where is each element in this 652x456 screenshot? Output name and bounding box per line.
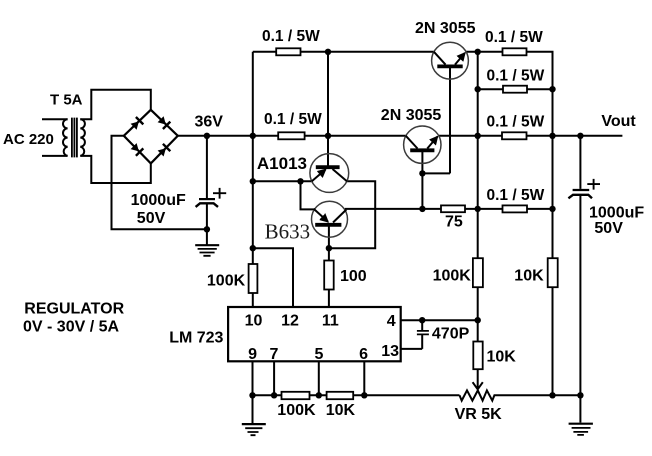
svg-text:50V: 50V <box>137 210 166 227</box>
svg-text:6: 6 <box>359 346 368 363</box>
svg-text:0.1 / 5W: 0.1 / 5W <box>262 28 320 45</box>
svg-text:9: 9 <box>248 346 257 363</box>
svg-text:75: 75 <box>445 214 463 231</box>
svg-text:2N 3055: 2N 3055 <box>381 107 442 124</box>
svg-text:AC 220: AC 220 <box>3 131 54 148</box>
svg-text:REGULATOR: REGULATOR <box>24 301 124 318</box>
svg-text:470P: 470P <box>432 326 470 343</box>
svg-text:4: 4 <box>387 313 396 330</box>
svg-text:100: 100 <box>340 268 367 285</box>
svg-text:7: 7 <box>270 346 279 363</box>
svg-text:36V: 36V <box>195 114 224 131</box>
svg-text:100K: 100K <box>433 267 472 284</box>
svg-text:0.1 / 5W: 0.1 / 5W <box>487 187 545 204</box>
svg-text:1000uF: 1000uF <box>131 192 186 209</box>
svg-text:10: 10 <box>245 313 263 330</box>
svg-text:1000uF: 1000uF <box>589 204 644 221</box>
svg-text:B633: B633 <box>265 220 311 244</box>
svg-text:0V - 30V / 5A: 0V - 30V / 5A <box>23 319 119 336</box>
svg-text:10K: 10K <box>326 402 356 419</box>
svg-text:LM 723: LM 723 <box>169 330 223 347</box>
svg-text:10K: 10K <box>514 267 544 284</box>
svg-text:0.1 / 5W: 0.1 / 5W <box>264 111 322 128</box>
svg-text:50V: 50V <box>594 220 623 237</box>
svg-text:11: 11 <box>322 313 339 330</box>
svg-text:0.1 / 5W: 0.1 / 5W <box>485 29 543 46</box>
svg-text:100K: 100K <box>277 402 316 419</box>
svg-text:2N 3055: 2N 3055 <box>415 20 476 37</box>
svg-text:A1013: A1013 <box>257 154 307 173</box>
svg-text:T 5A: T 5A <box>50 92 83 109</box>
svg-text:0.1 / 5W: 0.1 / 5W <box>487 113 545 130</box>
svg-text:10K: 10K <box>487 349 517 366</box>
svg-text:13: 13 <box>381 343 399 360</box>
svg-text:VR 5K: VR 5K <box>455 406 503 423</box>
svg-text:100K: 100K <box>207 272 246 289</box>
svg-text:12: 12 <box>281 313 299 330</box>
svg-text:5: 5 <box>314 346 323 363</box>
svg-text:0.1 / 5W: 0.1 / 5W <box>487 67 545 84</box>
svg-text:Vout: Vout <box>601 113 636 130</box>
